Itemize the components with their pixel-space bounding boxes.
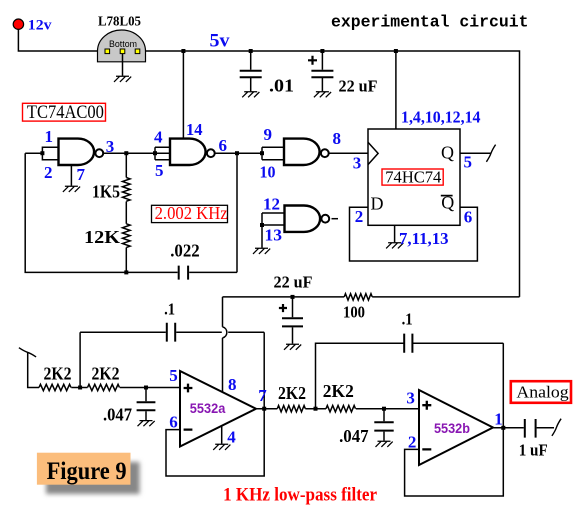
resistor 2K2 a — [39, 384, 71, 390]
svg-text:1 KHz low-pass filter: 1 KHz low-pass filter — [223, 485, 377, 506]
node dot rail .01 — [249, 49, 253, 53]
pigtail output — [552, 419, 561, 436]
resistor 2K2 d — [326, 406, 355, 412]
Qbar label — [441, 193, 455, 213]
node dot rail pin14 — [181, 49, 185, 53]
svg-text:14: 14 — [186, 120, 203, 139]
NAND U1b input loop — [155, 147, 170, 160]
wire hop arc — [223, 327, 227, 338]
svg-text:.01: .01 — [269, 76, 294, 96]
wire D to Qbar loop — [350, 207, 478, 261]
wire osc node drop — [236, 153, 238, 272]
wire .1 a drop to output — [263, 332, 265, 408]
wire pin2 feedback loop — [405, 428, 504, 496]
op-amp U2b — [419, 390, 493, 465]
svg-text:experimental circuit: experimental circuit — [331, 12, 529, 31]
wire output1 — [256, 408, 277, 410]
wire to node B — [305, 408, 326, 410]
svg-text:2K2: 2K2 — [323, 381, 354, 401]
wire to pin3 — [356, 408, 419, 410]
5v rail wire — [140, 50, 520, 297]
2.002 KHz label box — [152, 203, 228, 223]
wire bias rail — [223, 296, 520, 298]
svg-text:12K: 12K — [84, 227, 120, 247]
capacitor .01 — [240, 51, 262, 91]
svg-text:100: 100 — [343, 303, 365, 322]
capacitor .047 a — [137, 388, 156, 421]
svg-text:7,11,13: 7,11,13 — [399, 229, 449, 248]
svg-text:4: 4 — [154, 128, 163, 147]
node dot .047 b — [382, 407, 386, 411]
svg-text:1: 1 — [45, 127, 54, 146]
svg-text:1,4,10,12,14: 1,4,10,12,14 — [401, 107, 481, 126]
svg-text:2: 2 — [355, 207, 364, 226]
resistor 1K5 — [123, 153, 131, 201]
node dot U1c input — [260, 151, 264, 155]
wire pin14 drop — [182, 51, 184, 139]
svg-text:Q: Q — [441, 142, 454, 162]
svg-text:Bottom: Bottom — [109, 39, 137, 50]
wire node A up to .1 — [79, 332, 81, 387]
wire node B up to .1 b — [316, 343, 404, 409]
NAND U1d — [285, 206, 330, 232]
svg-text:6: 6 — [464, 208, 473, 227]
node dot A stage1 — [78, 386, 82, 390]
wire input drop — [28, 352, 39, 387]
NAND U1a input loop — [25, 147, 58, 160]
svg-text:2K2: 2K2 — [44, 364, 72, 384]
wire U1c out to clock — [329, 152, 368, 154]
pigtail input — [19, 348, 36, 357]
pigtail Q output — [486, 145, 495, 162]
svg-text:6: 6 — [169, 413, 178, 432]
NAND U1c — [284, 139, 329, 165]
svg-text:5: 5 — [155, 161, 164, 180]
wire feedback left vertical — [25, 153, 177, 272]
regulator U5 L78L05 body — [98, 30, 146, 62]
node dot rail 22uF — [320, 49, 324, 53]
svg-text:L78L05: L78L05 — [98, 14, 141, 29]
node dot 12K feedback — [124, 270, 128, 274]
wire U1b out — [215, 152, 262, 154]
node dot output2 — [501, 426, 505, 430]
wire 12v to regulator — [18, 30, 104, 51]
svg-text:7: 7 — [258, 386, 267, 405]
capacitor .022 — [179, 266, 188, 280]
svg-text:5532b: 5532b — [434, 420, 470, 436]
svg-text:.1: .1 — [402, 310, 413, 329]
svg-text:D: D — [371, 194, 384, 214]
svg-text:8: 8 — [228, 375, 237, 394]
capacitor .1 a — [80, 323, 264, 342]
wire bias drop with hop — [222, 297, 224, 392]
svg-text:Figure 9: Figure 9 — [47, 458, 127, 485]
capacitor .1 b — [404, 334, 503, 353]
wire pin6 feedback loop — [166, 409, 264, 476]
svg-text:.047: .047 — [103, 404, 132, 424]
capacitor 22uF bias — [279, 297, 303, 344]
NAND U1b — [170, 139, 215, 165]
ground .01 — [242, 92, 259, 98]
TC74AC00 label box — [23, 102, 106, 123]
svg-text:5v: 5v — [210, 31, 231, 52]
svg-text:12: 12 — [263, 195, 280, 214]
node dot U1b input — [153, 151, 157, 155]
svg-text:1K5: 1K5 — [92, 181, 120, 201]
svg-text:22 uF: 22 uF — [339, 77, 378, 96]
ground opamp pin4 — [213, 426, 230, 450]
wire to node A — [71, 387, 87, 389]
ground regulator — [114, 54, 131, 82]
svg-text:3: 3 — [406, 388, 415, 407]
svg-text:4: 4 — [227, 428, 236, 447]
NAND U1c input loop — [262, 147, 284, 160]
svg-text:.022: .022 — [170, 241, 200, 261]
ground .047 b — [376, 441, 393, 447]
svg-text:10: 10 — [260, 163, 276, 182]
svg-text:12v: 12v — [28, 17, 52, 33]
wire to pin5 — [120, 387, 180, 389]
op-amp U2a — [180, 371, 256, 447]
ground 22uF bias — [284, 344, 301, 350]
resistor 2K2 c — [277, 406, 305, 412]
svg-text:2K2: 2K2 — [92, 364, 120, 384]
svg-text:5532a: 5532a — [190, 400, 226, 416]
node dot output1 — [262, 407, 266, 411]
svg-text:2: 2 — [44, 163, 53, 182]
svg-text:22 uF: 22 uF — [274, 272, 313, 291]
wire Q output — [460, 152, 491, 154]
node dot bias cap — [291, 295, 295, 299]
wire 74HC74 supply drop — [395, 51, 397, 129]
svg-text:7: 7 — [77, 165, 86, 184]
capacitor .047 b — [374, 409, 393, 441]
resistor 2K2 b — [88, 384, 120, 390]
svg-text:3: 3 — [106, 137, 115, 156]
svg-text:.047: .047 — [339, 426, 369, 446]
node dot U1d input — [260, 223, 264, 227]
resistor 12K — [123, 202, 131, 273]
wire feedback right segment — [189, 271, 237, 273]
svg-text:.1: .1 — [164, 300, 175, 319]
svg-text:13: 13 — [265, 226, 283, 245]
svg-text:1 uF: 1 uF — [519, 441, 548, 460]
node dot U1b out — [235, 151, 239, 155]
NAND U1a — [59, 139, 104, 165]
74HC74 label box — [382, 168, 443, 187]
svg-text:74HC74: 74HC74 — [385, 168, 441, 187]
svg-text:TC74AC00: TC74AC00 — [27, 102, 104, 123]
ground U1a pin7 — [63, 166, 80, 192]
resistor 100 — [344, 294, 372, 300]
NAND U1d input loop — [262, 213, 285, 225]
Figure 9 shadow — [46, 462, 140, 494]
capacitor 22uF supply — [308, 51, 333, 91]
svg-text:8: 8 — [333, 129, 342, 148]
svg-text:5: 5 — [169, 366, 178, 385]
svg-text:9: 9 — [264, 125, 273, 144]
svg-text:6: 6 — [219, 136, 228, 155]
wire .1 b drop to output — [502, 343, 504, 428]
capacitor 1uF — [525, 419, 554, 438]
svg-text:5: 5 — [464, 153, 473, 172]
ground 74HC74 pin7 — [386, 225, 403, 248]
ground U1d — [253, 248, 270, 254]
svg-text:Analog: Analog — [516, 383, 569, 402]
wire U1d input to ground — [261, 225, 263, 248]
wire U1a out — [103, 152, 170, 154]
node dot rail 74HC74 — [394, 49, 398, 53]
svg-text:2.002 KHz: 2.002 KHz — [155, 203, 228, 223]
svg-text:3: 3 — [353, 153, 362, 172]
wire output2 — [493, 427, 524, 429]
12v terminal — [13, 19, 23, 29]
Figure 9 plate — [37, 453, 131, 485]
node dot node3 — [124, 151, 128, 155]
ground 22uF supply — [314, 92, 331, 98]
node dot .047 a — [144, 386, 148, 390]
node dot B stage2 — [314, 407, 318, 411]
ground .047 a — [138, 421, 155, 427]
wire U1d output stub — [332, 218, 339, 220]
flip-flop 74HC74 box — [368, 129, 460, 225]
svg-text:2K2: 2K2 — [278, 383, 306, 403]
Analog label box — [511, 381, 571, 403]
node dot U1a input — [40, 151, 44, 155]
